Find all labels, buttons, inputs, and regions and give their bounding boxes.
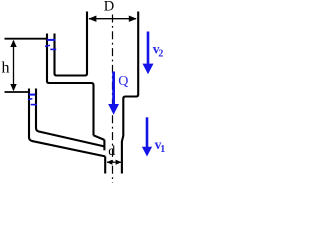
water level marks in tube2: middle tick: [28, 99, 32, 100]
dimension h arrowhead up: [10, 40, 16, 47]
piezometer tube2 inner wall + lower connector top line: [36, 89, 104, 147]
dimension h line: [13, 41, 15, 90]
svg-text:1: 1: [160, 144, 165, 155]
piezometer tube2 outer wall + lower connector bottom line: [29, 89, 105, 157]
dimension h arrowhead down: [10, 84, 16, 91]
h datum bottom line at tube2: [5, 91, 29, 93]
velocity arrow v2 shaft: [147, 32, 150, 65]
dimension D line: [89, 18, 136, 20]
dimension D arrowhead left: [88, 16, 96, 22]
pipe wall: tube1 outer wall + lower connector + narrow pipe left wall: [47, 34, 94, 136]
nozzle left slant: [94, 135, 105, 140]
water level marks in tube1: bottom bar: [50, 48, 56, 50]
svg-text:2: 2: [158, 49, 163, 60]
water level marks in tube1: middle tick: [45, 45, 50, 46]
water level marks in tube1: top bar: [47, 39, 55, 41]
centerline (dash-dot axis of pipe): [112, 15, 114, 184]
svg-text:h: h: [2, 60, 10, 77]
water level marks in tube2: top bar: [29, 94, 35, 96]
dimension D arrowhead right: [129, 16, 137, 22]
pipe wall: wide pipe right wall + right shoulder + narrow pipe right wall: [122, 12, 138, 174]
water level line at tube1 (h datum top): [5, 38, 47, 40]
dimension d arrowhead right: [116, 160, 122, 165]
velocity arrow v1 shaft: [146, 117, 149, 147]
svg-text:D: D: [104, 0, 114, 15]
svg-text:d: d: [108, 144, 115, 159]
flow arrow Q shaft: [112, 72, 115, 105]
velocity arrow v1 head: [142, 147, 152, 157]
nozzle outlet left wall lower segment: [104, 156, 106, 173]
svg-text:Q: Q: [118, 74, 128, 89]
nozzle outlet left wall upper segment: [103, 140, 105, 151]
water level marks in tube2: bottom bar: [31, 104, 37, 106]
dimension d line: [107, 161, 121, 163]
flow arrow Q head: [108, 104, 119, 115]
dimension d arrowhead left: [107, 160, 113, 165]
velocity arrow v2 head: [143, 64, 154, 75]
pipe wall: tube1 inner wall + upper connector + wide pipe left wall: [55, 12, 88, 76]
